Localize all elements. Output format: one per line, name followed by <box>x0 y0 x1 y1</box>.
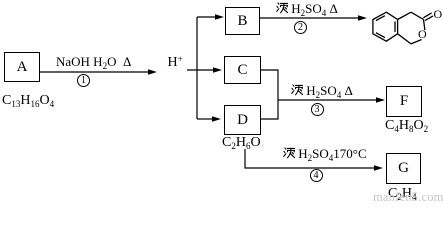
label nong H2SO4 delta (3) <box>291 83 353 99</box>
label circled 2 <box>294 21 307 34</box>
wire arrow merged to F (3) <box>278 97 385 103</box>
box A <box>4 52 40 82</box>
carbonyl O label <box>434 7 443 22</box>
wire D out elbow <box>261 100 278 119</box>
label C2H6O <box>222 135 261 151</box>
wire trunk vertical <box>196 17 198 119</box>
box C <box>224 56 261 84</box>
label circled 1 <box>77 74 90 87</box>
label nong H2SO4 delta (2) <box>276 1 338 17</box>
label NaOH H2O delta <box>56 54 131 70</box>
wire arrow1 A to H+ <box>40 69 157 75</box>
watermark <box>373 190 443 205</box>
label C2H4 <box>388 186 416 202</box>
label circled 4 <box>310 169 323 182</box>
label circled 3 <box>311 103 324 116</box>
benzene inner double bond fusion edge <box>394 21 396 32</box>
benzene ring <box>373 12 398 41</box>
benzene inner double bond top-left <box>376 16 385 21</box>
box F <box>386 86 422 117</box>
ring O label of lactone <box>418 27 427 42</box>
box B <box>225 7 260 35</box>
lactone ring bonds <box>398 12 411 19</box>
box D <box>224 105 261 135</box>
wire arrow C2H6O to G (4) <box>245 149 383 171</box>
carbonyl C=O double bond <box>423 13 431 18</box>
wire arrow to D <box>197 116 221 122</box>
label C13H16O4 <box>2 93 54 109</box>
box G <box>386 153 421 184</box>
wire C out elbow <box>261 70 278 100</box>
isochromanone product structure <box>373 12 433 44</box>
wire arrow to B <box>197 14 224 20</box>
wire arrow B to product (2) <box>260 15 367 21</box>
benzene inner double bond bottom-left <box>376 33 385 38</box>
label nong H2SO4 170C (4) <box>283 146 367 162</box>
label C4H8O2 <box>385 118 428 134</box>
label H+ <box>168 55 183 71</box>
wire arrow2 H+ to C <box>187 67 222 73</box>
